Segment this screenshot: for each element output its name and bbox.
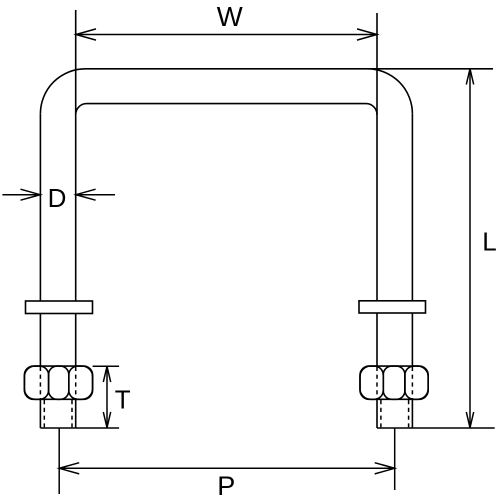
U-bolt outer contour (top bar outer edge with corners, includes L top extension line) xyxy=(40,69,493,114)
washer right xyxy=(359,301,426,313)
hex nut right: outer outline xyxy=(360,366,428,399)
hex nut left: outer outline xyxy=(24,366,92,399)
dimension W right arrowhead xyxy=(357,29,377,40)
dimension T top arrowhead xyxy=(103,366,110,382)
right leg between washer and nut xyxy=(377,313,412,366)
T top extension line (collinear with nut top) xyxy=(93,365,120,367)
right leg inner edge + W extension line xyxy=(376,13,378,301)
dimension T line xyxy=(106,366,108,427)
dimension W line xyxy=(76,34,377,36)
right leg outer edge (upper segment to washer) xyxy=(411,114,413,301)
left thread root lines below nut (dashed) xyxy=(44,400,72,427)
svg-text:W: W xyxy=(217,1,243,32)
left leg between washer and nut xyxy=(40,314,75,367)
dimension L top arrowhead xyxy=(466,69,473,85)
dimension W left arrowhead xyxy=(76,29,96,40)
hex nut left: left facet xyxy=(24,366,48,399)
svg-text:T: T xyxy=(115,385,131,415)
dimension D right arrow line xyxy=(76,194,115,196)
dimension P line xyxy=(59,467,395,469)
hidden rod edges through left nut (dashed) xyxy=(40,367,75,400)
svg-text:L: L xyxy=(482,227,496,257)
right thread root lines below nut (dashed) xyxy=(381,400,409,427)
dimension L bottom arrowhead xyxy=(466,412,473,428)
hex nut right: right facet xyxy=(405,366,428,399)
dimension P left arrowhead xyxy=(59,463,79,474)
right threaded rod end below nut (solid edges + bottom, bottom continues as L extension line) xyxy=(377,399,495,428)
left leg outer edge (upper segment to washer) xyxy=(39,114,41,301)
svg-text:D: D xyxy=(48,183,67,213)
hidden rod edges through right nut (dashed) xyxy=(377,367,412,400)
hex nut right: left facet xyxy=(360,366,383,399)
dimension L line xyxy=(469,69,471,428)
hex nut left: middle facet xyxy=(49,366,69,399)
dimension D left arrowhead xyxy=(21,189,41,200)
U-bolt inner contour (top bar inner edge with corners) xyxy=(76,104,377,115)
washer left xyxy=(26,301,93,314)
hex nut left: right facet xyxy=(69,366,93,399)
left leg inner edge + W extension line (crosses top bar, down to washer) xyxy=(75,10,77,301)
svg-text:P: P xyxy=(217,471,235,500)
dimension D right arrowhead xyxy=(76,189,96,200)
T bottom extension line (collinear with rod bottom) xyxy=(76,427,119,429)
left rod centerline extension (P extension) xyxy=(58,428,60,494)
dimension P right arrowhead xyxy=(375,463,395,474)
dimension T bottom arrowhead xyxy=(103,412,110,428)
hex nut right: middle facet xyxy=(383,366,405,399)
dimension D left arrow line xyxy=(2,194,40,196)
left threaded rod end below nut (solid edges + bottom) xyxy=(40,399,75,428)
right rod centerline extension (P extension) xyxy=(394,428,396,490)
